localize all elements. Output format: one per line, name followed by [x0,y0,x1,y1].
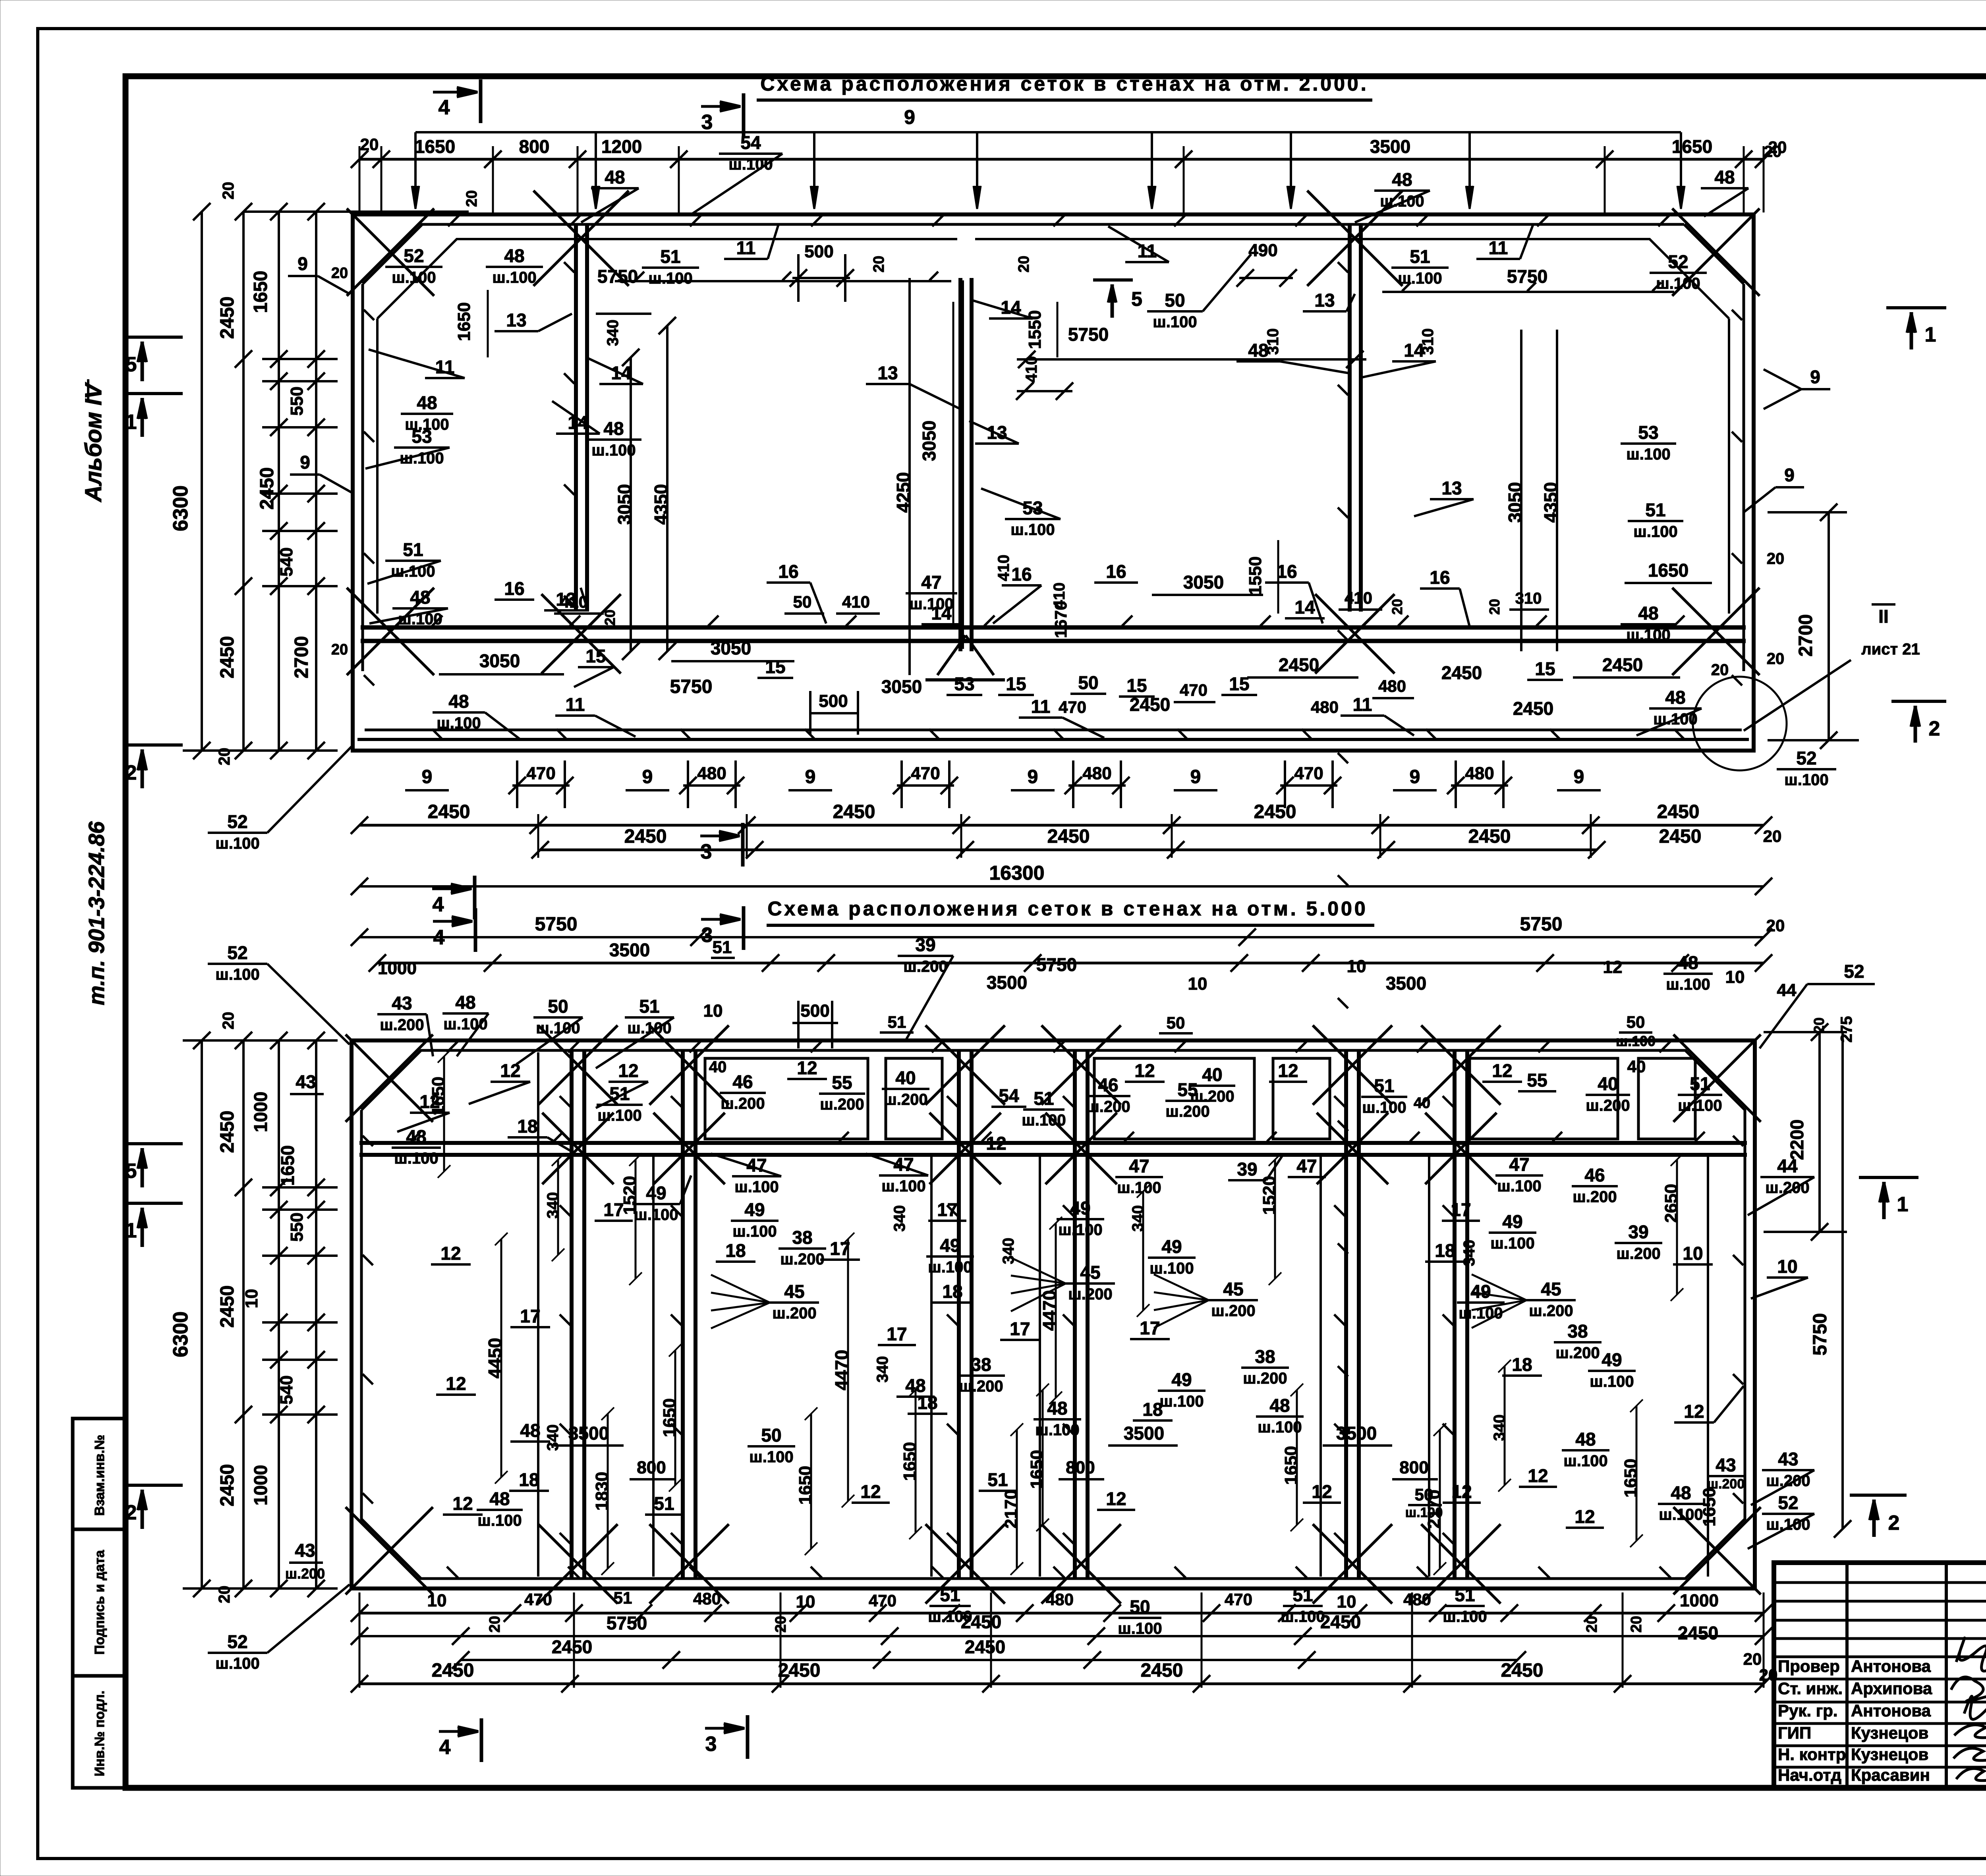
svg-text:47: 47 [1129,1156,1149,1176]
main title block outline [1774,1563,1986,1788]
svg-text:ш.200: ш.200 [1616,1245,1660,1262]
svg-text:ш.100: ш.100 [1118,1620,1162,1637]
svg-text:52: 52 [1844,961,1864,982]
svg-text:12: 12 [1603,957,1623,977]
svg-text:т.п. 901-3-224.86: т.п. 901-3-224.86 [84,821,109,1006]
svg-text:ш.200: ш.200 [721,1095,765,1112]
svg-text:45: 45 [1080,1262,1100,1283]
svg-text:1650: 1650 [429,1077,448,1116]
hatch ticks along bottom tank outer walls [447,1041,458,1052]
svg-text:800: 800 [637,1458,666,1477]
svg-text:38: 38 [1255,1346,1275,1367]
svg-text:ш.100: ш.100 [1656,275,1700,292]
svg-text:40: 40 [1598,1073,1618,1094]
svg-text:5750: 5750 [1036,954,1077,975]
svg-text:1650: 1650 [1648,560,1688,581]
svg-text:49: 49 [1070,1198,1090,1218]
svg-text:20: 20 [1764,143,1782,160]
svg-text:53: 53 [954,674,974,694]
svg-text:1520: 1520 [1260,1176,1279,1215]
svg-text:ш.100: ш.100 [215,835,259,852]
svg-text:540: 540 [277,547,296,576]
svg-text:20: 20 [1389,599,1405,615]
svg-text:9: 9 [422,766,433,787]
svg-text:3: 3 [701,111,713,134]
svg-text:50: 50 [1078,672,1098,693]
svg-text:16: 16 [1277,561,1297,582]
svg-text:ш.200: ш.200 [1165,1103,1209,1120]
svg-text:46: 46 [1584,1165,1605,1185]
svg-text:10: 10 [1725,967,1745,987]
svg-text:ш.100: ш.100 [492,269,536,286]
svg-text:ш.100: ш.100 [1784,771,1828,789]
svg-text:15: 15 [585,646,606,666]
svg-text:9: 9 [1810,367,1820,387]
svg-text:ш.100: ш.100 [1022,1112,1066,1129]
svg-text:275: 275 [1838,1016,1855,1043]
svg-text:ш.200: ш.200 [1068,1285,1112,1303]
svg-text:43: 43 [295,1540,315,1561]
svg-text:51: 51 [1034,1088,1054,1109]
svg-text:9: 9 [1028,766,1038,787]
svg-text:II: II [1878,606,1889,627]
interior wall C top junction cross [1307,191,1403,286]
svg-text:Красавин: Красавин [1851,1766,1930,1784]
svg-text:470: 470 [526,764,555,783]
svg-text:ш.100: ш.100 [1666,976,1710,993]
svg-text:10: 10 [1347,957,1366,976]
svg-text:2: 2 [1888,1511,1900,1534]
svg-text:12: 12 [1106,1488,1126,1509]
svg-text:9: 9 [1410,766,1420,787]
svg-text:лист 21: лист 21 [1861,641,1920,658]
svg-text:1: 1 [126,1219,137,1242]
svg-text:20: 20 [216,748,233,766]
svg-text:16: 16 [1106,561,1126,582]
svg-text:2170: 2170 [1001,1490,1021,1529]
svg-text:20: 20 [1767,650,1785,668]
svg-text:1: 1 [126,411,137,434]
svg-text:48: 48 [455,992,475,1013]
svg-text:12: 12 [452,1493,473,1514]
svg-text:2450: 2450 [1254,801,1296,822]
svg-text:20: 20 [1486,599,1503,615]
svg-text:18: 18 [1435,1240,1455,1261]
svg-text:ш.100: ш.100 [1490,1235,1534,1252]
svg-text:10: 10 [1188,974,1207,994]
svg-text:18: 18 [725,1240,746,1261]
svg-text:2450: 2450 [833,801,875,822]
svg-text:49: 49 [1161,1236,1182,1257]
svg-text:550: 550 [287,1212,307,1241]
svg-text:Рук. гр.: Рук. гр. [1778,1701,1838,1720]
svg-text:52: 52 [227,811,247,832]
section marker 5 (inside top) [1093,278,1133,282]
svg-text:50: 50 [1130,1596,1150,1617]
svg-text:ш.100: ш.100 [591,442,636,459]
svg-text:16: 16 [778,561,798,582]
svg-text:800: 800 [1399,1458,1428,1477]
junction crosses at top and bottom of interior walls [538,1025,618,1105]
svg-text:49: 49 [646,1183,666,1203]
svg-text:54: 54 [740,132,761,153]
svg-text:48: 48 [1575,1429,1596,1449]
interior horizontal wall near top of bottom tank [359,1141,1747,1145]
svg-text:2450: 2450 [217,1464,238,1507]
svg-text:ш.200: ш.200 [772,1305,816,1322]
svg-text:51: 51 [1374,1075,1394,1096]
svg-text:12: 12 [618,1060,638,1081]
crosses where horizontal wall meets verticals [542,1113,614,1184]
svg-text:1000: 1000 [250,1465,271,1505]
interior wall C (vertical) [1348,224,1352,612]
svg-text:17: 17 [603,1199,624,1220]
svg-text:800: 800 [1066,1458,1095,1477]
svg-text:Альбом IV: Альбом IV [81,382,106,503]
svg-text:540: 540 [277,1375,296,1404]
svg-text:43: 43 [392,993,412,1013]
svg-text:ш.100: ш.100 [749,1448,793,1466]
svg-text:44: 44 [1777,1156,1798,1176]
svg-text:ш.100: ш.100 [928,1258,972,1276]
interior horizontal wall [361,625,1746,630]
top dimension row [359,158,1764,161]
svg-text:51: 51 [1410,246,1430,267]
svg-text:ш.200: ш.200 [1529,1302,1573,1320]
svg-text:2450: 2450 [1320,1612,1361,1632]
svg-text:48: 48 [406,1126,426,1147]
svg-text:Ст. инж.: Ст. инж. [1778,1679,1843,1698]
svg-text:51: 51 [987,1469,1008,1490]
right dims of bottom tank [1818,1032,1821,1232]
svg-text:39: 39 [1237,1159,1257,1179]
svg-text:12: 12 [440,1243,461,1264]
svg-text:470: 470 [1294,764,1323,783]
svg-text:1650: 1650 [277,1145,298,1186]
svg-text:ш.100: ш.100 [1153,313,1197,331]
svg-text:ш.100: ш.100 [1678,1097,1722,1114]
svg-text:470: 470 [911,764,940,783]
svg-text:15: 15 [1126,675,1147,696]
svg-text:49: 49 [744,1199,765,1220]
svg-text:20: 20 [1584,1616,1600,1633]
interior wall B bottom splay [937,635,966,675]
svg-text:9: 9 [904,106,915,128]
svg-text:20: 20 [1711,661,1729,679]
svg-text:20: 20 [464,190,480,207]
svg-text:13: 13 [1314,290,1335,311]
hatch ticks along right wall [1732,310,1742,320]
corner crosses of top tank [347,208,434,296]
svg-text:51: 51 [713,938,732,957]
svg-text:20: 20 [360,135,379,154]
svg-text:20: 20 [1763,827,1782,845]
svg-text:ш.100: ш.100 [437,714,481,732]
svg-text:3500: 3500 [609,940,650,960]
svg-text:3500: 3500 [987,972,1027,993]
svg-text:ш.100: ш.100 [1117,1179,1161,1197]
interior vertical dim lines bottom tank [500,1239,502,1477]
svg-text:49: 49 [1602,1349,1622,1370]
svg-text:14: 14 [1404,340,1424,361]
dim row 2450 v2 below [461,1659,1517,1661]
section marker 2 (left, top tank) [128,743,183,747]
svg-text:2450: 2450 [1279,654,1319,675]
hatch ticks along top wall [448,215,459,226]
svg-text:52: 52 [404,245,424,266]
svg-text:ш.200: ш.200 [1765,1179,1809,1197]
svg-text:12: 12 [1492,1060,1512,1081]
corner crosses of bottom tank [346,1035,433,1122]
svg-text:12: 12 [1451,1481,1472,1502]
svg-text:20: 20 [331,641,348,658]
svg-text:12: 12 [500,1060,520,1081]
svg-text:5: 5 [1131,288,1142,310]
svg-text:48: 48 [1671,1482,1691,1503]
svg-text:40: 40 [1627,1057,1646,1076]
svg-text:3500: 3500 [568,1423,609,1444]
svg-text:ш.200: ш.200 [380,1016,424,1034]
svg-text:18: 18 [1512,1354,1532,1375]
svg-text:5750: 5750 [1520,914,1563,935]
svg-text:480: 480 [1082,764,1111,783]
svg-text:48: 48 [605,167,625,187]
svg-text:52: 52 [1796,748,1816,768]
circle mark at bottom-right corner [1693,677,1787,770]
svg-text:9: 9 [1574,766,1584,787]
svg-text:ш.100: ш.100 [1159,1393,1204,1410]
mesh line right compartment [1382,291,1674,293]
svg-text:20: 20 [1628,1616,1645,1633]
section marker 5 (left, top tank) [128,336,183,339]
svg-text:1650: 1650 [1672,136,1712,157]
svg-text:2450: 2450 [1602,654,1643,675]
svg-text:800: 800 [519,136,550,157]
svg-text:2450: 2450 [217,1111,238,1153]
svg-text:47: 47 [1509,1154,1529,1175]
svg-text:16300: 16300 [989,862,1044,884]
svg-text:ш.100: ш.100 [634,1206,678,1224]
svg-text:9: 9 [805,766,816,787]
svg-text:52: 52 [1778,1492,1798,1513]
svg-text:50: 50 [761,1425,781,1446]
svg-text:3050: 3050 [479,650,520,671]
svg-text:3: 3 [701,840,712,863]
svg-text:ш.200: ш.200 [1573,1188,1617,1206]
svg-text:340: 340 [891,1205,908,1232]
svg-text:46: 46 [732,1071,753,1092]
svg-text:ш.200: ш.200 [820,1096,864,1113]
section marker 4 (top) [433,91,471,94]
svg-text:5: 5 [126,353,137,376]
interior wall B (vertical, middle) [958,278,962,651]
svg-text:3500: 3500 [1386,973,1426,994]
svg-text:11: 11 [1031,696,1051,717]
bottom tank wall inner face with chamfers [361,1050,1745,1579]
signature scribbles [1956,1638,1986,1671]
svg-text:1830: 1830 [592,1472,612,1511]
svg-text:ш.200: ш.200 [959,1378,1003,1395]
svg-text:40: 40 [709,1058,727,1076]
svg-text:10: 10 [703,1001,723,1021]
svg-text:2450: 2450 [1130,694,1170,715]
svg-text:1: 1 [1897,1193,1909,1216]
svg-text:48: 48 [489,1488,510,1509]
svg-text:1650: 1650 [1281,1446,1301,1485]
section marker 1 (right, bottom tank) [1859,1176,1918,1179]
svg-text:40: 40 [1414,1095,1430,1112]
svg-text:1650: 1650 [1621,1459,1640,1498]
svg-text:2700: 2700 [1795,614,1816,657]
svg-text:38: 38 [971,1354,991,1375]
svg-text:10: 10 [1683,1243,1703,1264]
interior vertical walls of bottom tank [570,1050,574,1579]
svg-text:20: 20 [487,1616,503,1633]
svg-text:ш.100: ш.100 [1626,626,1670,644]
svg-text:40: 40 [1202,1064,1222,1085]
svg-text:18: 18 [519,1469,539,1490]
svg-text:500: 500 [804,242,833,261]
svg-text:3500: 3500 [1336,1423,1377,1444]
svg-text:410: 410 [842,593,870,611]
svg-text:2450: 2450 [1678,1623,1718,1643]
svg-text:50: 50 [1165,290,1185,311]
svg-text:2450: 2450 [1501,1660,1544,1681]
svg-text:Нач.отд: Нач.отд [1778,1766,1841,1784]
svg-text:ш.100: ш.100 [1058,1221,1102,1239]
svg-text:48: 48 [1714,167,1735,187]
svg-text:12: 12 [1312,1481,1332,1502]
svg-text:2450: 2450 [965,1637,1005,1657]
svg-text:39: 39 [1628,1222,1648,1242]
svg-text:10: 10 [427,1591,447,1610]
svg-text:2650: 2650 [1661,1184,1681,1223]
svg-text:43: 43 [296,1071,316,1092]
svg-text:17: 17 [937,1199,957,1220]
svg-text:2200: 2200 [1787,1119,1807,1160]
svg-text:12: 12 [797,1058,817,1078]
svg-text:55: 55 [832,1072,852,1093]
svg-text:51: 51 [888,1013,906,1031]
svg-text:ш.100: ш.100 [405,416,449,433]
svg-text:16: 16 [1430,567,1450,588]
svg-text:48: 48 [448,691,469,712]
svg-text:2700: 2700 [291,636,312,679]
svg-text:ш.200: ш.200 [1243,1370,1287,1387]
svg-text:9: 9 [1190,766,1201,787]
section marker 3 (below top tank) [700,835,734,838]
svg-text:2450: 2450 [257,467,278,510]
svg-text:2450: 2450 [1468,826,1511,847]
svg-text:12: 12 [1278,1060,1298,1081]
svg-text:ш.100: ш.100 [394,1150,438,1167]
svg-text:51: 51 [1645,500,1665,520]
svg-text:3050: 3050 [711,638,751,658]
svg-text:1650: 1650 [1700,1488,1719,1527]
svg-text:480: 480 [1403,1590,1431,1609]
svg-text:Антонова: Антонова [1851,1657,1931,1675]
svg-text:20: 20 [220,1012,237,1030]
svg-text:ш.100: ш.100 [732,1223,777,1240]
svg-text:18: 18 [517,1116,537,1137]
svg-text:470: 470 [1059,698,1086,716]
svg-text:9: 9 [642,766,653,787]
svg-text:17: 17 [887,1324,907,1344]
section marker 4 (bottom) [439,1730,473,1733]
svg-text:ш.100: ш.100 [1659,1506,1703,1523]
interior wall A (vertical) [574,224,578,612]
svg-text:ш.200: ш.200 [1211,1302,1255,1320]
svg-text:470: 470 [1180,681,1207,699]
svg-text:ш.100: ш.100 [1563,1452,1607,1470]
left vertical dimension lines [201,212,203,751]
dim row 5750 / 2450 below [359,1635,1764,1637]
svg-text:10: 10 [796,1592,815,1612]
section marker 1 (left, top tank) [128,392,183,395]
svg-text:13: 13 [877,363,898,383]
svg-text:ш.100: ш.100 [1590,1373,1634,1390]
svg-text:51: 51 [639,996,659,1017]
svg-text:ш.100: ш.100 [1398,270,1442,287]
svg-text:51: 51 [654,1493,674,1514]
svg-text:48: 48 [410,587,430,608]
svg-text:1650: 1650 [1027,1450,1047,1489]
svg-text:2: 2 [126,1501,137,1524]
svg-text:51: 51 [609,1083,630,1104]
title block signature rows [1774,1581,1986,1584]
svg-text:2450: 2450 [217,1285,238,1328]
svg-text:15: 15 [1229,674,1249,694]
dim row 2450 v3 below [359,1683,1764,1685]
svg-text:ш.100: ш.100 [1459,1305,1503,1322]
svg-text:2450: 2450 [778,1660,821,1681]
svg-text:13: 13 [506,310,526,330]
svg-text:17: 17 [1010,1318,1030,1339]
section marker 2 (right, top tank) [1891,700,1946,703]
svg-text:Кузнецов: Кузнецов [1851,1724,1928,1742]
dim row 5750 above bottom tank [359,936,1764,938]
svg-text:43: 43 [1778,1449,1798,1469]
svg-text:11: 11 [1489,237,1508,258]
svg-text:9: 9 [1784,465,1795,485]
svg-text:52: 52 [1668,251,1688,272]
svg-text:Инв.№ подл.: Инв.№ подл. [92,1691,107,1776]
svg-text:20: 20 [1767,550,1785,567]
svg-text:410: 410 [1051,583,1068,609]
svg-text:1000: 1000 [250,1092,271,1132]
svg-text:3050: 3050 [919,421,939,461]
svg-text:2450: 2450 [1657,801,1700,822]
svg-text:2450: 2450 [1141,1660,1183,1681]
svg-text:38: 38 [1567,1321,1588,1341]
svg-text:48: 48 [1392,169,1412,190]
svg-text:410: 410 [560,593,588,611]
svg-text:11: 11 [736,237,756,258]
section marker 2 (right, bottom tank) [1850,1494,1907,1497]
section marker 5 (left, bottom tank) [128,1142,183,1145]
svg-text:ш.200: ш.200 [1586,1097,1630,1114]
svg-text:Антонова: Антонова [1851,1701,1931,1720]
svg-text:ш.200: ш.200 [903,958,947,975]
extension verticals below bottom tank [359,1592,361,1688]
svg-text:340: 340 [544,1424,562,1451]
section marker 3 (bottom) [705,1727,739,1730]
svg-text:48: 48 [1678,952,1698,973]
svg-text:51: 51 [940,1585,960,1605]
top tank inner mesh octagon [377,239,957,318]
svg-text:1650: 1650 [454,302,474,341]
svg-text:15: 15 [765,656,785,677]
